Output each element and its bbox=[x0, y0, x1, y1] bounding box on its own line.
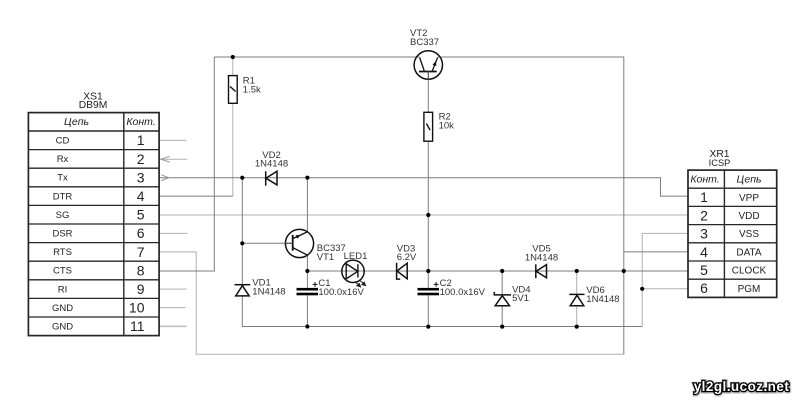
svg-text:GND: GND bbox=[52, 303, 73, 314]
svg-text:8: 8 bbox=[137, 262, 145, 278]
svg-text:6: 6 bbox=[700, 280, 708, 296]
svg-text:yl2gl.ucoz.net: yl2gl.ucoz.net bbox=[694, 379, 790, 394]
svg-text:6: 6 bbox=[137, 225, 145, 241]
svg-text:10k: 10k bbox=[439, 120, 455, 131]
svg-text:1N4148: 1N4148 bbox=[255, 159, 288, 170]
svg-text:VDD: VDD bbox=[738, 211, 759, 222]
svg-text:CD: CD bbox=[56, 136, 70, 147]
svg-text:6.2V: 6.2V bbox=[397, 252, 417, 263]
svg-text:Rx: Rx bbox=[57, 154, 69, 165]
svg-text:2: 2 bbox=[137, 151, 145, 167]
svg-text:5: 5 bbox=[700, 262, 708, 278]
svg-text:DB9M: DB9M bbox=[79, 100, 108, 111]
svg-text:CTS: CTS bbox=[53, 266, 72, 277]
svg-text:100.0x16V: 100.0x16V bbox=[318, 287, 364, 298]
svg-text:9: 9 bbox=[137, 281, 145, 297]
svg-text:DATA: DATA bbox=[736, 247, 762, 258]
svg-text:7: 7 bbox=[137, 244, 145, 260]
svg-text:Цепь: Цепь bbox=[64, 116, 89, 128]
svg-text:RI: RI bbox=[58, 284, 68, 295]
svg-text:Конт.: Конт. bbox=[690, 173, 719, 185]
svg-text:5: 5 bbox=[137, 207, 145, 223]
svg-text:Конт.: Конт. bbox=[126, 116, 155, 128]
svg-text:10: 10 bbox=[129, 300, 145, 316]
svg-text:11: 11 bbox=[130, 318, 145, 334]
svg-text:4: 4 bbox=[137, 188, 145, 204]
svg-text:RTS: RTS bbox=[53, 247, 72, 258]
svg-text:BC337: BC337 bbox=[410, 37, 439, 48]
svg-text:Цепь: Цепь bbox=[736, 173, 761, 185]
svg-text:1.5k: 1.5k bbox=[243, 84, 261, 95]
svg-text:LED1: LED1 bbox=[344, 251, 368, 262]
svg-text:2: 2 bbox=[700, 207, 708, 223]
svg-text:3: 3 bbox=[137, 169, 145, 185]
svg-text:ICSP: ICSP bbox=[709, 158, 731, 168]
svg-text:100.0x16V: 100.0x16V bbox=[440, 287, 486, 298]
svg-text:1N4148: 1N4148 bbox=[252, 286, 285, 297]
svg-text:4: 4 bbox=[700, 244, 708, 260]
svg-text:DTR: DTR bbox=[53, 191, 73, 202]
svg-text:1: 1 bbox=[700, 189, 708, 205]
svg-text:1N4148: 1N4148 bbox=[525, 252, 558, 263]
svg-text:1N4148: 1N4148 bbox=[586, 294, 619, 305]
svg-text:SG: SG bbox=[56, 210, 70, 221]
svg-text:PGM: PGM bbox=[738, 284, 761, 295]
svg-text:1: 1 bbox=[137, 132, 145, 148]
svg-text:Tx: Tx bbox=[57, 173, 68, 184]
svg-text:DSR: DSR bbox=[52, 229, 72, 240]
svg-text:3: 3 bbox=[700, 226, 708, 242]
svg-text:CLOCK: CLOCK bbox=[732, 266, 767, 277]
svg-text:VPP: VPP bbox=[739, 193, 759, 204]
svg-text:VT1: VT1 bbox=[317, 252, 334, 263]
svg-text:5V1: 5V1 bbox=[512, 293, 529, 304]
svg-text:GND: GND bbox=[52, 322, 73, 333]
svg-text:VSS: VSS bbox=[739, 229, 759, 240]
